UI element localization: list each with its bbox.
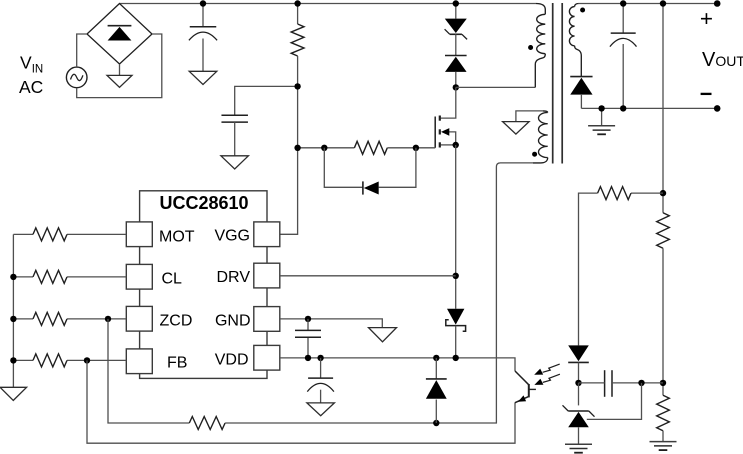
svg-text:VGG: VGG bbox=[214, 227, 250, 244]
wire: CL lead bbox=[13, 276, 126, 278]
wire: bulk cap top lead bbox=[202, 4, 204, 27]
wire: DRV to source column bbox=[280, 275, 456, 277]
junction: VDD / source column bbox=[453, 355, 459, 361]
U1 pin boxes bbox=[126, 222, 279, 374]
capacitor C-comp bbox=[605, 370, 612, 397]
svg-text:FB: FB bbox=[167, 354, 187, 371]
junction: VDD diode / sense line bbox=[433, 420, 439, 426]
wire: MOT lead bbox=[13, 233, 126, 235]
svg-text:VOUT: VOUT bbox=[702, 49, 743, 71]
wire: source column lower bbox=[455, 326, 457, 358]
wire: C-VDD bottom lead bbox=[320, 390, 322, 403]
wire: divider column upper bbox=[662, 4, 664, 213]
junction: drain / clamp / primary bbox=[453, 84, 459, 90]
wire: D-VDD top lead bbox=[435, 358, 437, 379]
svg-text:AC: AC bbox=[19, 77, 43, 97]
capacitor C-bypass (GND-VDD) bbox=[295, 330, 321, 337]
ground (divider earth) bbox=[650, 442, 677, 451]
transformer T1 core bbox=[553, 3, 563, 164]
wire: TVS to blocking diode bbox=[455, 34, 457, 55]
wire: gate network right bbox=[387, 147, 435, 149]
wire: C-out bottom lead bbox=[622, 44, 624, 108]
wire: divider to LED bbox=[579, 193, 664, 345]
capacitor C-VGG bbox=[221, 115, 248, 122]
wire: D-VDD bottom lead bbox=[435, 400, 437, 424]
wire: clamp top lead bbox=[455, 4, 457, 19]
label VIN bbox=[20, 53, 43, 76]
wire: source column upper bbox=[455, 145, 457, 309]
wire: zener top lead bbox=[578, 383, 580, 406]
label + bbox=[700, 6, 713, 31]
junction: FB node bbox=[84, 357, 90, 363]
wire: aux top to ground bbox=[516, 111, 543, 122]
junction: GND / C-bypass bbox=[305, 316, 311, 322]
wire: bulk cap bottom lead bbox=[202, 39, 204, 72]
wire: divider column mid bbox=[662, 248, 664, 395]
junction: VGG cap tap bbox=[294, 83, 300, 89]
junction: -rail / earth bbox=[598, 105, 604, 111]
aux phase dot bbox=[532, 152, 537, 157]
pin label CL bbox=[162, 271, 183, 288]
junction: ZCD node bbox=[105, 316, 111, 322]
wire: + output rail bbox=[579, 3, 717, 5]
wire: ZCD column down bbox=[108, 319, 189, 423]
transistor Q1 (power MOSFET) bbox=[435, 116, 449, 148]
junction: MOSFET source node bbox=[453, 142, 459, 148]
pin label ZCD bbox=[160, 313, 193, 330]
wire: AC source to bridge left node bbox=[77, 34, 87, 67]
resistor R-div-lower bbox=[657, 395, 670, 430]
wire: gate diode branch bbox=[324, 148, 416, 188]
diode D-block (clamp blocking diode) bbox=[445, 56, 467, 72]
transistor Q-opto (phototransistor) bbox=[515, 371, 536, 403]
wire: left ground rail bbox=[12, 234, 14, 387]
wire: D-out to - rail bbox=[580, 94, 582, 108]
pin label DRV bbox=[217, 269, 251, 286]
resistor R-MOT bbox=[33, 228, 67, 241]
ground (aux winding) bbox=[503, 122, 529, 135]
ground (C-VGG) bbox=[221, 156, 249, 169]
wire: - output rail bbox=[581, 107, 717, 109]
svg-text:UCC28610: UCC28610 bbox=[159, 193, 248, 213]
wire: VGG column top lead bbox=[297, 4, 299, 25]
junction: LED / comp cap bbox=[575, 380, 581, 386]
junction: -rail / C-out bbox=[620, 105, 626, 111]
transformer T1 primary winding bbox=[535, 4, 545, 88]
junction: bus / clamp bbox=[453, 0, 459, 6]
wire: C-VDD top lead bbox=[320, 358, 322, 378]
label UCC28610 bbox=[159, 193, 248, 213]
junction: DRV tap bbox=[453, 273, 459, 279]
wire: blocking diode to drain node bbox=[455, 72, 457, 88]
wire: secondary earth stub bbox=[601, 108, 603, 125]
junction: divider top node bbox=[660, 190, 666, 196]
junction: bus / R-VGG bbox=[294, 0, 300, 6]
zener D-Z1 (source to VDD) bbox=[446, 309, 466, 331]
wire: zener sense wire bbox=[587, 383, 642, 420]
ground (shunt earth) bbox=[565, 444, 592, 453]
capacitor C-bulk (input electrolytic) bbox=[189, 27, 217, 41]
ground (bridge) bbox=[107, 75, 132, 87]
wire: MOSFET drain lead bbox=[441, 87, 456, 118]
wire: MOSFET source lead bbox=[441, 144, 456, 146]
transformer T1 secondary winding bbox=[569, 4, 581, 77]
resistor R-FB bbox=[33, 354, 67, 367]
wire: gate network left bbox=[298, 147, 355, 149]
capacitor C-out (output electrolytic) bbox=[610, 33, 637, 47]
wire: comp cap right lead bbox=[612, 382, 663, 384]
wire: LED cathode lead bbox=[578, 362, 580, 383]
ground (secondary earth) bbox=[588, 126, 615, 135]
wire: GND pin net bbox=[280, 319, 382, 328]
svg-text:+: + bbox=[700, 6, 713, 31]
junction: gate diode left tap bbox=[321, 145, 327, 151]
pin label VGG bbox=[214, 227, 250, 244]
wire: FB lead bbox=[13, 359, 126, 361]
resistor R-CL bbox=[33, 270, 67, 283]
pin label FB bbox=[167, 354, 187, 371]
wire: zener bottom lead bbox=[578, 427, 580, 444]
svg-text:DRV: DRV bbox=[217, 269, 251, 286]
pin label MOT bbox=[159, 228, 195, 245]
diode D-gate (speedup) bbox=[363, 181, 379, 194]
wire: MOSFET body lead bbox=[449, 132, 456, 145]
op-amp U1 UCC28610 body bbox=[140, 191, 267, 379]
svg-text:MOT: MOT bbox=[159, 228, 195, 245]
wire: ZCD lead bbox=[13, 318, 126, 320]
bridge rectifier diode symbol bbox=[108, 26, 132, 41]
resistor R-gate bbox=[354, 141, 387, 154]
label - (minus) bbox=[701, 93, 712, 95]
junction: rail / R-FB bbox=[10, 357, 16, 363]
wire: VDD rail bbox=[280, 358, 515, 371]
pin label GND bbox=[215, 313, 251, 330]
junction: bus / C-bulk bbox=[200, 0, 206, 6]
junction: VDD / C-bypass bbox=[305, 355, 311, 361]
junction: gate diode right tap bbox=[413, 145, 419, 151]
junction: comp cap / sense wire bbox=[638, 380, 644, 386]
resistor R-ZCD2 (aux sense) bbox=[189, 417, 225, 430]
wire: VGG column bbox=[280, 56, 298, 234]
junction: +rail / C-out bbox=[620, 0, 626, 6]
TVS D-clamp (transient suppressor) bbox=[445, 19, 468, 40]
wire: AC source to bridge right node bbox=[77, 34, 162, 98]
wire: drain node to primary bottom bbox=[456, 86, 536, 88]
svg-text:VDD: VDD bbox=[215, 351, 249, 368]
junction: rail / R-ZCD bbox=[10, 316, 16, 322]
AC source V1 bbox=[66, 67, 87, 88]
svg-text:ZCD: ZCD bbox=[160, 313, 193, 330]
diode D-VDD (aux to VDD) bbox=[426, 379, 447, 399]
secondary phase dot bbox=[580, 8, 585, 13]
label VOUT bbox=[702, 49, 743, 71]
wire: bypass cap leads bbox=[307, 319, 309, 358]
wire: bridge bottom stub bbox=[119, 64, 121, 75]
wire: input top rail (rectified DC bus) bbox=[120, 3, 537, 5]
junction: rail / R-CL bbox=[10, 274, 16, 280]
bridge rectifier BR1 (diamond) bbox=[87, 4, 152, 65]
wire: aux sense line bbox=[225, 163, 533, 423]
junction: VGG column / gate net bbox=[294, 145, 300, 151]
wire: FB to opto emitter bbox=[87, 360, 515, 443]
junction: VDD / C-VDD bbox=[317, 355, 323, 361]
junction: +rail / divider bbox=[660, 0, 666, 6]
wire: VGG cap branch bbox=[235, 86, 298, 115]
wire: C-out top lead bbox=[622, 4, 624, 34]
diode D-out (secondary rectifier) bbox=[570, 77, 592, 95]
resistor R-div-upper bbox=[657, 213, 670, 249]
node - terminal bbox=[714, 105, 721, 112]
zener D-Z2 (shunt regulator) bbox=[563, 405, 595, 427]
junction: divider mid node bbox=[660, 380, 666, 386]
ground (bulk cap) bbox=[189, 71, 217, 84]
pin label VDD bbox=[215, 351, 249, 368]
ground (left rail) bbox=[0, 387, 27, 400]
wire: divider column bottom bbox=[662, 431, 664, 442]
svg-text:CL: CL bbox=[162, 271, 183, 288]
svg-text:GND: GND bbox=[215, 313, 251, 330]
resistor R-ZCD bbox=[33, 312, 67, 325]
wire: comp cap left lead bbox=[579, 382, 605, 384]
node + terminal bbox=[714, 0, 721, 7]
primary phase dot bbox=[528, 45, 533, 50]
label AC bbox=[19, 77, 43, 97]
resistor R-VGG (bus to VGG) bbox=[291, 24, 304, 56]
ground (C-VDD) bbox=[307, 403, 335, 416]
opto light arrows bbox=[534, 364, 560, 385]
junction: VDD / D-VDD bbox=[433, 355, 439, 361]
transformer T1 auxiliary winding bbox=[533, 111, 548, 163]
LED D-opto (optocoupler LED) bbox=[568, 345, 589, 362]
resistor R-LED (bias) bbox=[598, 187, 631, 200]
ground (GND pin) bbox=[369, 328, 397, 342]
capacitor C-VDD (electrolytic) bbox=[307, 378, 334, 392]
wire: VGG cap bottom lead bbox=[234, 122, 236, 156]
